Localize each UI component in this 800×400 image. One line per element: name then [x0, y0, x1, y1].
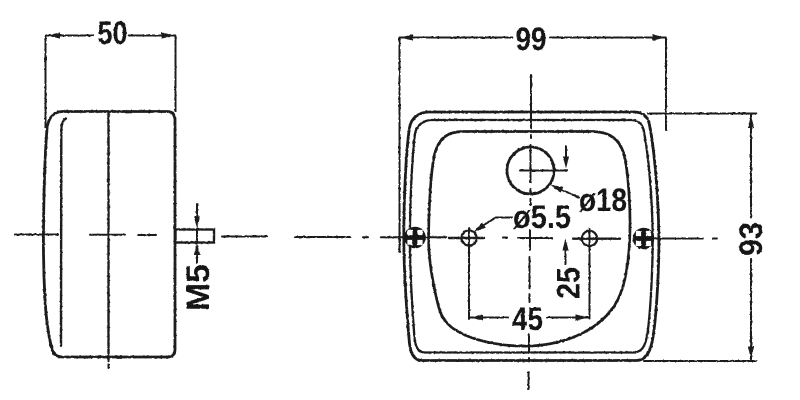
- right view lens outline: [429, 132, 630, 347]
- mounting hole left: [461, 230, 476, 245]
- dimension 99 line segments: [400, 37, 512, 39]
- vertical centerline dashes: [530, 75, 532, 128]
- svg-text:ø5.5: ø5.5: [513, 199, 571, 235]
- dimension 93 arrows: [748, 115, 754, 128]
- hole circle 18: [507, 147, 554, 194]
- leader line diameter 5.5: [496, 217, 512, 219]
- M5 dimension line through stud: [196, 229, 198, 243]
- svg-text:ø18: ø18: [579, 182, 627, 218]
- M5 stud: [176, 230, 215, 243]
- dimension 45 line segments: [470, 317, 509, 319]
- right view rim inner line: [410, 120, 653, 353]
- M5 dimension lower arrow: [196, 252, 198, 263]
- dimension 25 lower arrow: [565, 248, 567, 264]
- leader line diameter 18: [553, 186, 579, 198]
- screw left: [404, 227, 426, 249]
- svg-text:25: 25: [551, 267, 587, 299]
- left view lamp body outline: [43, 112, 175, 358]
- dimension 50 arrow left: [47, 32, 60, 38]
- svg-text:93: 93: [733, 222, 769, 256]
- left view lens joint line: [61, 119, 66, 347]
- dimension 25 upper arrow: [565, 146, 567, 157]
- screw right: [633, 228, 655, 250]
- dimension 99 extension line left: [399, 38, 401, 253]
- dimension 50 extension line right: [175, 36, 177, 111]
- left view centerline tick below body: [108, 365, 110, 369]
- dimension 50 line left segment: [46, 35, 93, 37]
- mounting hole right: [582, 231, 597, 246]
- dimension 50 extension line left: [45, 36, 47, 127]
- horizontal centerline dashes: [15, 234, 58, 236]
- dimension 93 extension lines: [648, 113, 756, 115]
- dimension 99 arrows: [400, 34, 413, 40]
- svg-text:50: 50: [98, 15, 128, 51]
- dimension 50 line right segment: [129, 35, 175, 37]
- left view center seam line: [107, 112, 109, 361]
- hole 18 center horizontal line: [520, 170, 567, 172]
- dimension 93 line segments: [750, 115, 752, 217]
- svg-text:M5: M5: [180, 264, 216, 311]
- svg-text:99: 99: [516, 21, 547, 57]
- dimension 50 arrow right: [162, 32, 175, 38]
- M5 dimension upper arrow: [196, 204, 198, 216]
- dimension 99 extension line right: [665, 38, 667, 131]
- dimension 45 arrows: [470, 314, 483, 320]
- svg-text:45: 45: [512, 301, 543, 337]
- right view outer body outline: [404, 112, 659, 361]
